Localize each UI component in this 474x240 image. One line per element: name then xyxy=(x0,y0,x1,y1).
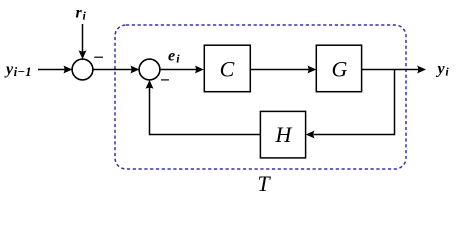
svg-text:ei: ei xyxy=(168,48,180,66)
svg-text:T: T xyxy=(257,171,271,196)
svg-text:yi: yi xyxy=(436,61,450,79)
svg-text:ri: ri xyxy=(76,5,87,23)
block C (controller) xyxy=(204,45,250,91)
wire feedback tap down from output line xyxy=(314,70,395,135)
svg-text:C: C xyxy=(220,57,235,82)
svg-text:H: H xyxy=(275,122,293,147)
wire C to block G xyxy=(250,69,310,71)
wire S1 to summing junction S2 xyxy=(93,69,133,71)
block G (plant) xyxy=(316,45,361,91)
minus sign on S1 (ri input) xyxy=(94,56,103,58)
block H (feedback) xyxy=(260,111,305,157)
wire S2 to block C xyxy=(160,69,198,71)
minus sign on S2 (feedback input) xyxy=(161,79,169,81)
summing junction S1 xyxy=(72,59,93,80)
wire H back up into S2 xyxy=(150,86,261,135)
dashed system boundary box T xyxy=(115,25,406,169)
svg-text:yi−1: yi−1 xyxy=(4,61,32,79)
summing junction S2 xyxy=(139,59,160,80)
wire yi-1 to summing junction S1 xyxy=(38,69,66,71)
wire G to output yi xyxy=(362,69,420,71)
wire ri down into summing junction S1 xyxy=(82,24,84,54)
svg-text:G: G xyxy=(332,57,348,82)
